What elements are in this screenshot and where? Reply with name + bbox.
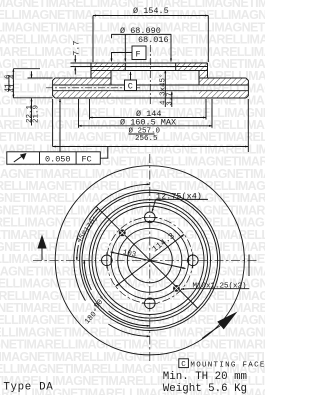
dimension Ø154.5 extension right xyxy=(207,16,209,63)
bore edge right xyxy=(175,63,177,71)
bolt hole bottom xyxy=(145,298,156,309)
dimension 103 line xyxy=(111,252,186,269)
dimension 180deg text xyxy=(83,307,102,326)
M10 threaded hole SE xyxy=(173,285,180,292)
45 degree diagonal line NW xyxy=(96,206,150,260)
runout FCF frame xyxy=(7,152,101,164)
outer circle Ø257 xyxy=(55,166,244,355)
runout FCF leader stub right xyxy=(100,147,108,159)
rotation direction arrow bottom right xyxy=(202,326,221,339)
dimension 12.75(x4) leader xyxy=(152,199,156,211)
dimension Ø154.5 line xyxy=(93,15,208,17)
dimension Ø257 extension right xyxy=(247,99,249,152)
datum F leader xyxy=(112,53,133,62)
svg-text:Ø 154.5: Ø 154.5 xyxy=(133,6,169,16)
dimension 45deg arc xyxy=(77,245,79,260)
svg-text:Ø 160.5 MAX: Ø 160.5 MAX xyxy=(120,117,176,127)
section hatch: hat flange left xyxy=(91,63,125,78)
section hatch: hat flange right xyxy=(176,63,208,78)
bolt circle Ø114.3 xyxy=(107,217,193,303)
hat mounting face line xyxy=(91,66,208,68)
center bore circle xyxy=(127,238,172,283)
dimension 41.6/41.4 line xyxy=(12,69,14,98)
dimension 180deg arc xyxy=(74,184,150,300)
bolt hole right xyxy=(188,255,199,266)
rotation direction arrow left xyxy=(41,249,43,261)
dimension Ø257 line xyxy=(53,146,249,148)
front view horizontal centerline xyxy=(33,259,257,261)
vent channel bottom line xyxy=(53,90,249,92)
svg-text:256.5: 256.5 xyxy=(135,135,158,143)
svg-text:Weight 5.6 Kg: Weight 5.6 Kg xyxy=(163,383,247,395)
hat flange top line xyxy=(91,62,208,64)
hat flange bottom line xyxy=(91,70,208,72)
datum F box xyxy=(132,46,146,60)
dimension 7.7 text xyxy=(71,40,81,55)
runout symbol xyxy=(14,156,23,162)
section hatch: top band right xyxy=(199,78,248,85)
section hatch: top band left xyxy=(53,78,111,85)
band top line right xyxy=(199,77,246,79)
dimension Ø68.090/68.016 underline xyxy=(111,33,171,35)
dimension 3.7 line xyxy=(171,92,173,108)
note C mounting face box xyxy=(179,359,189,368)
dimension 21.9 text xyxy=(33,105,41,123)
dimension 114.3 text xyxy=(150,231,176,254)
dimension 22.1 text xyxy=(26,104,34,123)
front view vertical centerline xyxy=(149,154,151,362)
disc OD edge right (chamfered) xyxy=(246,78,249,98)
svg-text:3.7: 3.7 xyxy=(167,92,175,106)
dimension M10x1.25(x2) underline xyxy=(190,288,250,290)
svg-text:Type DA: Type DA xyxy=(3,382,53,394)
svg-text:21.9: 21.9 xyxy=(33,105,41,123)
M10 threaded hole NW xyxy=(119,229,126,236)
dimension 22.1/21.9 extension xyxy=(28,77,53,79)
dimension 41.6 text xyxy=(4,74,12,93)
bolt hole left xyxy=(102,255,113,266)
svg-text:41.4: 41.4 xyxy=(9,74,17,93)
dimension 103 text xyxy=(122,249,137,260)
dimension Ø154.5 extension left xyxy=(92,16,94,63)
dimension Ø257 fraction bar xyxy=(129,133,155,135)
svg-text:F: F xyxy=(136,50,141,60)
vent centerline xyxy=(46,87,140,89)
45 degree diagonal line SE xyxy=(150,260,198,308)
dimension Ø144 extension right xyxy=(205,99,207,120)
dimension 41.6/41.4 extension top xyxy=(13,68,40,70)
svg-text:C: C xyxy=(128,82,133,92)
svg-text:C: C xyxy=(181,361,186,369)
dimension 7.7 extension lines xyxy=(71,62,92,64)
svg-text:MOUNTING FACE: MOUNTING FACE xyxy=(190,361,264,369)
datum C leader xyxy=(130,72,132,80)
dimension Ø257 extension left xyxy=(52,99,54,147)
dimension 4.3x45 text xyxy=(158,73,167,105)
dimension 22.1/21.9 arrows xyxy=(31,71,33,77)
hat cavity wall right xyxy=(198,71,200,86)
dimension 45deg text xyxy=(76,215,101,245)
vent channel top line xyxy=(53,84,249,86)
braking band inner edge circle xyxy=(80,190,220,330)
dimension Ø160.5 extension left xyxy=(78,99,80,128)
dimension Ø160.5 extension right xyxy=(211,99,213,128)
section hatch: bottom band left xyxy=(53,91,111,98)
section axis centerline xyxy=(149,45,151,106)
dimension Ø144 line xyxy=(90,117,207,119)
dimension 114.3 line xyxy=(116,234,185,286)
dimension Ø144 extension left xyxy=(89,99,91,120)
hat cavity wall left xyxy=(110,71,112,86)
section hatch: bottom band right xyxy=(199,91,248,98)
dimension Ø160.5 line xyxy=(79,125,213,127)
dimension 12.75(x4) underline xyxy=(156,198,208,200)
hub register circle xyxy=(118,228,182,292)
dimension 41.6/41.4 fraction bar xyxy=(8,75,10,91)
dimension 41.6/41.4 extension bottom xyxy=(13,97,52,99)
dimension 90deg text xyxy=(92,294,108,310)
hat outer wall right xyxy=(207,63,209,78)
svg-text:FC: FC xyxy=(82,155,92,165)
datum C box xyxy=(125,80,137,91)
disc OD edge left (chamfered) xyxy=(53,78,56,98)
svg-text:Min. TH 20 mm: Min. TH 20 mm xyxy=(163,371,247,383)
dimension 41.4 text xyxy=(9,74,17,93)
band top line left xyxy=(55,77,111,79)
band bottom line xyxy=(55,97,246,99)
dimension 4.3x45 line xyxy=(164,70,166,107)
runout FCF leader to braking surface xyxy=(59,99,61,152)
hat circle Ø154.5 xyxy=(92,202,208,318)
svg-text:68.016: 68.016 xyxy=(138,35,169,45)
hat circle Ø160.5 xyxy=(89,200,210,321)
circle Ø103 xyxy=(111,221,189,299)
bore edge left xyxy=(124,63,126,71)
centerline tick at circle right edge xyxy=(248,255,250,277)
bolt hole top xyxy=(145,212,156,223)
hat outer wall left xyxy=(90,63,92,78)
svg-text:0.050: 0.050 xyxy=(45,155,71,165)
dimension 3.7 text xyxy=(167,92,175,106)
dimension 90deg arc xyxy=(84,260,91,290)
dimension 22.1/21.9 fraction bar xyxy=(31,104,33,126)
dimension Ø68 arrow right xyxy=(170,34,172,61)
dimension M10x1.25(x2) leader xyxy=(181,288,190,290)
dimension 7.7 arrows xyxy=(74,55,76,62)
svg-text:7.7: 7.7 xyxy=(71,40,81,55)
dimension Ø68 arrow left xyxy=(124,34,126,61)
hat circle Ø144 xyxy=(96,206,204,314)
